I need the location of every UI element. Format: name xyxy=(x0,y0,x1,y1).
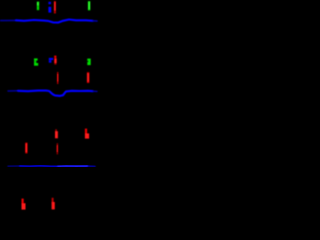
label L_R7 (red bar, lower-left) xyxy=(25,143,27,154)
label L_R10 (red glyph bottom-middle) xyxy=(52,198,55,210)
label L_R4 (red bar right) xyxy=(87,72,89,83)
label L_B1 (blue marks top-middle) xyxy=(48,2,51,13)
pin stub P1 (green bar top-left) xyxy=(37,2,39,11)
label L_R2 (red glyph) xyxy=(54,56,57,65)
instance glyph I2 (green block mark) xyxy=(87,59,90,66)
label L_R3 (thin red bar) xyxy=(57,72,58,84)
pin stub P2 (green bar top-right) xyxy=(88,1,90,11)
label L_R9 (red b-glyph bottom-left) xyxy=(22,199,26,210)
wire W2 (middle blue net with step-down) xyxy=(8,91,97,96)
label L_B2 (blue glyph) xyxy=(49,58,53,63)
instance glyph I1 (green Z mark) xyxy=(34,58,38,65)
label L_R8 (red bar, lower-middle) xyxy=(57,143,59,154)
wire W1 (top horizontal blue net) xyxy=(1,20,98,23)
label L_R5 (red glyph mid-low) xyxy=(55,129,58,138)
label L_R6 (red b-glyph mid-low right) xyxy=(85,129,89,139)
wire W3 (lower horizontal blue net) xyxy=(8,165,95,168)
label L_R1 (red bar top-middle) xyxy=(54,1,56,14)
